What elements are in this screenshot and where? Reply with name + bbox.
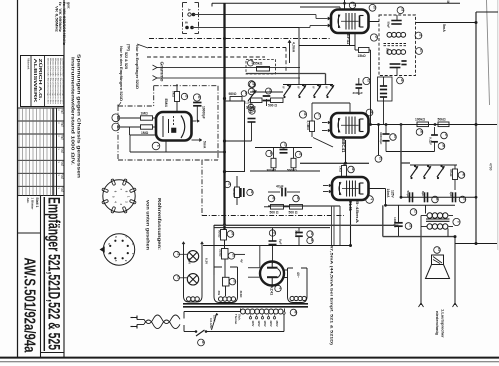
svg-text:300kΩ: 300kΩ — [232, 188, 236, 197]
svg-text:6,3V: 6,3V — [188, 258, 192, 264]
svg-text:Abweichende Bestimmungen der: Abweichende Bestimmungen der — [61, 58, 64, 104]
svg-text:3000pF: 3000pF — [353, 91, 364, 95]
svg-text:220V: 220V — [213, 315, 217, 321]
svg-text:Ug2: Ug2 — [61, 135, 64, 140]
svg-text:Spannungen gegen Chassis gemes: Spannungen gegen Chassis gemessen — [77, 54, 82, 178]
svg-text:AZ41: AZ41 — [270, 286, 275, 297]
svg-text:250V: 250V — [275, 321, 279, 327]
svg-text:Albiswerk: Albiswerk — [27, 58, 30, 70]
svg-text:Ug2: Ug2 — [61, 109, 64, 114]
svg-text:Ug2: Ug2 — [61, 175, 64, 180]
svg-text:14mA: 14mA — [386, 189, 390, 199]
svg-text:300kΩ: 300kΩ — [267, 169, 277, 173]
svg-text:110-125V: 110-125V — [209, 318, 212, 329]
svg-text:8μF: 8μF — [279, 239, 283, 245]
svg-text:220V: 220V — [269, 321, 273, 327]
svg-text:15kΩ: 15kΩ — [358, 54, 367, 58]
svg-text:55kΩ: 55kΩ — [254, 62, 263, 66]
svg-text:4V~: 4V~ — [296, 272, 300, 278]
svg-text:980Ω: 980Ω — [229, 92, 237, 96]
svg-text:522 & 525: 522 & 525 — [124, 52, 128, 69]
svg-text:500 Ω: 500 Ω — [289, 211, 298, 215]
svg-text:47kΩ: 47kΩ — [449, 169, 453, 177]
svg-text:4V: 4V — [240, 259, 244, 263]
svg-text:50kΩ: 50kΩ — [438, 118, 447, 122]
svg-text:125V: 125V — [257, 321, 261, 327]
svg-text:niederohmig: niederohmig — [435, 311, 440, 336]
svg-text:VK 6,56MHz: VK 6,56MHz — [54, 6, 58, 32]
svg-text:AW.S.501/92a/94a: AW.S.501/92a/94a — [21, 258, 38, 353]
svg-text:50μF: 50μF — [406, 191, 410, 198]
svg-text:30μF: 30μF — [295, 230, 299, 237]
svg-text:500kΩ: 500kΩ — [287, 169, 297, 173]
svg-text:1kΩ: 1kΩ — [339, 166, 343, 172]
svg-text:30000pF: 30000pF — [379, 132, 383, 144]
svg-text:ALBISWERK: ALBISWERK — [33, 59, 38, 104]
svg-text:Grammo: Grammo — [160, 62, 165, 82]
svg-text:0,1μF: 0,1μF — [429, 137, 433, 145]
svg-text:5mA: 5mA — [203, 141, 207, 149]
svg-text:fe VK 682/10646kHz: fe VK 682/10646kHz — [62, 2, 66, 46]
svg-text:1MΩ: 1MΩ — [141, 131, 149, 135]
svg-text:900Ω: 900Ω — [218, 230, 222, 238]
svg-text:Ug2: Ug2 — [61, 122, 64, 127]
svg-text:8μF: 8μF — [421, 191, 425, 197]
svg-text:ZÜRICH A.G.: ZÜRICH A.G. — [38, 59, 43, 101]
svg-text:Röhrenfassungen:: Röhrenfassungen: — [157, 198, 162, 251]
svg-text:Sich.: Sich. — [238, 314, 242, 321]
svg-text:5000: 5000 — [386, 48, 390, 55]
svg-text:1 Blätter: 1 Blätter — [30, 198, 34, 211]
svg-text:Nur in den Empfängern 521D: Nur in den Empfängern 521D — [119, 46, 123, 101]
svg-text:1.Lautsprecher: 1.Lautsprecher — [441, 309, 446, 338]
svg-text:5·45mA: 5·45mA — [355, 201, 359, 224]
svg-text:M: M — [446, 1, 450, 4]
svg-text:1MΩ: 1MΩ — [141, 111, 149, 115]
svg-text:Thermo: Thermo — [234, 314, 238, 325]
svg-text:Ug2: Ug2 — [61, 162, 64, 167]
svg-text:50pF: 50pF — [387, 22, 391, 29]
svg-text:EF41: EF41 — [346, 34, 351, 45]
svg-text:500 Ω: 500 Ω — [268, 104, 277, 108]
svg-text:gen:: gen: — [67, 2, 71, 9]
svg-text:500 Ω: 500 Ω — [270, 211, 279, 215]
svg-text:(TR): (TR) — [127, 44, 131, 51]
svg-text:Empfänger 521,521D,522 & 525: Empfänger 521,521D,522 & 525 — [45, 197, 63, 350]
svg-text:4,3mA: 4,3mA — [292, 42, 296, 53]
svg-text:5mA: 5mA — [442, 24, 446, 32]
svg-text:Nur in Empfänger 521D: Nur in Empfänger 521D — [135, 45, 139, 89]
svg-text:4790: 4790 — [489, 163, 493, 171]
svg-text:310Ω: 310Ω — [239, 291, 243, 299]
svg-text:Blatt 1: Blatt 1 — [35, 198, 39, 208]
svg-text:EM4: EM4 — [164, 99, 169, 108]
svg-text:145V: 145V — [263, 321, 267, 327]
svg-text:315Ω: 315Ω — [219, 249, 223, 257]
svg-text:10000pF: 10000pF — [202, 106, 206, 119]
svg-text:1000pF: 1000pF — [393, 217, 397, 228]
svg-text:5kΩ: 5kΩ — [172, 91, 176, 97]
svg-text:125V: 125V — [391, 190, 395, 199]
svg-text:47μF: 47μF — [276, 185, 283, 189]
svg-text:Abt.: Abt. — [26, 198, 30, 204]
svg-text:Instrumentenwiderstand 1000 Ω/: Instrumentenwiderstand 1000 Ω/V. — [71, 57, 76, 165]
svg-text:0,1MΩ: 0,1MΩ — [306, 121, 310, 131]
svg-text:110V: 110V — [251, 321, 255, 327]
svg-text:1μF: 1μF — [449, 192, 453, 198]
svg-text:6,3V: 6,3V — [205, 258, 209, 264]
svg-text:von unten gesehen: von unten gesehen — [146, 200, 151, 250]
svg-text:47,5mA (44,5mA bei Empf. 521 &: 47,5mA (44,5mA bei Empf. 521 & 521D) — [330, 245, 335, 346]
svg-text:100kΩ: 100kΩ — [415, 118, 425, 122]
svg-text:Ug2: Ug2 — [61, 149, 64, 154]
svg-text:30k: 30k — [217, 291, 221, 296]
svg-text:Ug2: Ug2 — [61, 188, 64, 193]
